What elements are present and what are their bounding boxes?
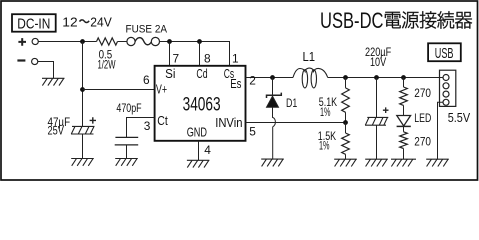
svg-text:470pF: 470pF [116,101,141,115]
DC-IN label box [12,14,56,32]
svg-text:GND: GND [187,124,207,139]
node junction: V+ branch to pin 6 [80,87,85,92]
wire C1 to ground [82,134,84,159]
plus terminal [18,38,26,46]
C3 plus mark [383,107,389,113]
C2 plates [115,137,139,145]
svg-text:3: 3 [144,119,151,133]
svg-text:12: 12 [62,15,77,30]
svg-text:FUSE 2A: FUSE 2A [126,23,168,35]
ground (D1) [261,158,284,160]
J1 pin 3 [443,91,449,97]
wire minus to ground [38,62,54,79]
svg-text:6: 6 [143,73,150,87]
svg-text:Cd: Cd [196,66,207,81]
resistor R2 5.1K 1% [345,78,347,123]
node junction: input rail / V+ rail [80,39,85,44]
D1 anode wire with hop over pin 5 wire [273,107,276,159]
svg-text:DC-IN: DC-IN [17,16,50,32]
J1 pin 2 [443,83,449,89]
svg-text:1: 1 [232,51,239,65]
svg-text:INVin: INVin [215,115,242,130]
pin 5 wire to feedback node [246,122,346,124]
svg-text:5: 5 [249,124,256,138]
D1 anode triangle [267,96,279,107]
node dot at pin 8 [197,39,202,44]
fuse F1 FUSE 2A [127,37,135,45]
pin 7 lead [169,42,171,66]
svg-text:270: 270 [414,134,431,148]
svg-text:8: 8 [204,51,211,65]
node dot: 220uF [374,75,379,80]
pin 2 wire to output rail [246,77,294,79]
ground (divider) [334,158,357,160]
resistor R4 270 upper [403,78,405,88]
pin 3 wire [127,118,155,138]
ground (LED branch) [391,158,416,160]
ground (input minus) [42,77,65,79]
svg-text:USB: USB [435,46,454,62]
svg-text:25V: 25V [48,123,64,137]
resistor R3 1.5K 1% [345,123,347,160]
diode D1 schottky, cathode lead [272,78,274,95]
minus terminal [17,59,25,61]
wire C2 to ground [126,145,128,159]
svg-text:1/2W: 1/2W [98,57,116,71]
svg-text:24V: 24V [90,15,112,30]
D1 schottky cathode bar [267,93,282,98]
pin 4 lead [198,141,200,161]
resistor R1 0.5 ohm 1/2W [97,38,118,45]
V+ rail wire down left side [82,42,84,127]
svg-text:5.5V: 5.5V [448,110,471,125]
J1 pin 4 [443,99,449,105]
node dot: LED branch [401,75,406,80]
wire R1 to fuse [118,41,128,43]
node dot: D1 cathode to switch rail [270,75,275,80]
wire fuse to pin 1 [160,42,230,66]
svg-text:1%: 1% [319,139,330,153]
IC U1 34063 DC-DC converter [155,66,246,141]
node dot at pin 7 [167,39,172,44]
svg-text:Si: Si [165,66,175,81]
node dot: feedback junction [343,120,348,125]
capacitor C3 220uF 10V electrolytic [376,78,378,118]
J1 pin 1 [443,75,449,81]
svg-text:Es: Es [230,76,242,91]
USB label box [428,43,461,61]
USB connector J1 [440,70,456,106]
svg-text:LED: LED [414,111,431,125]
ground (pin 4) [187,159,210,161]
ground (USB) [426,158,449,160]
outer frame [1,1,478,180]
wire plus terminal to R1 [38,41,96,43]
ground (C1) [71,158,94,160]
svg-text:D1: D1 [286,96,298,110]
svg-text:10V: 10V [370,55,386,69]
ground (C2) [115,158,138,160]
resistor R5 270 lower [403,126,405,131]
svg-text:USB-DC: USB-DC [320,8,384,33]
C1 plus mark [90,117,96,123]
USB ground return wire [438,102,444,159]
svg-text:2: 2 [249,73,256,87]
title kanji 電源接続器 [385,12,401,29]
ground (C3) [365,158,388,160]
LED D2 [403,105,405,115]
pin 6 wire [83,89,155,91]
svg-text:34063: 34063 [183,95,221,116]
svg-text:4: 4 [204,143,211,157]
svg-text:L1: L1 [303,50,316,64]
svg-text:7: 7 [173,51,180,65]
svg-text:270: 270 [414,86,431,100]
output rail after L1 [328,77,443,79]
pin 8 lead [199,42,201,66]
svg-text:Ct: Ct [157,113,168,128]
node dot: divider top [343,75,348,80]
svg-text:1%: 1% [320,105,331,119]
svg-text:V+: V+ [156,82,167,97]
capacitor C1 47uF 25V electrolytic [71,126,95,134]
